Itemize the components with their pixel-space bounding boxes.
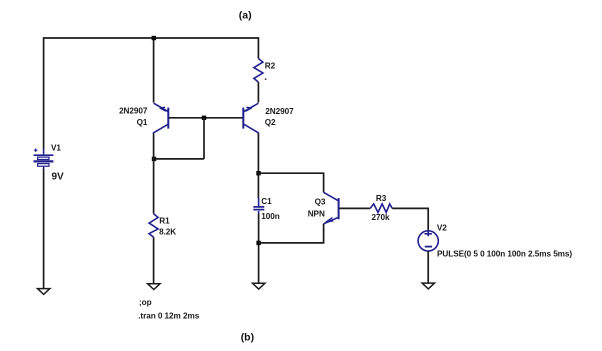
svg-text:2N2907: 2N2907: [119, 107, 148, 116]
wire V2 to ground: [427, 251, 429, 283]
wire Q1 emitter drop: [153, 38, 155, 103]
svg-text:Q3: Q3: [315, 197, 326, 206]
svg-text:R1: R1: [159, 217, 170, 226]
ground V2: [422, 283, 434, 289]
svg-text:100n: 100n: [261, 212, 279, 221]
wire Q1 base to Q2 base: [169, 117, 243, 119]
resistor R2: [254, 59, 263, 83]
source V2: [418, 231, 438, 251]
svg-text:Q2: Q2: [265, 118, 276, 127]
svg-text:9V: 9V: [52, 172, 65, 183]
svg-text:270k: 270k: [372, 213, 390, 222]
svg-text:R3: R3: [376, 194, 387, 203]
junction dot top rail: [152, 36, 156, 40]
wire C1 bottom to ground: [258, 214, 260, 283]
svg-text:8.2K: 8.2K: [159, 227, 176, 236]
svg-text:R2: R2: [265, 62, 276, 71]
wire Q2 collector down: [257, 134, 259, 199]
ground C1: [253, 283, 265, 289]
wire node to Q3 collector: [259, 173, 324, 192]
ground V1: [38, 289, 50, 295]
wire V1 bottom lead: [43, 169, 45, 288]
wire R1 to ground: [153, 237, 155, 284]
transistor Q1 (PNP 2N2907): [154, 103, 169, 134]
wire top rail: [44, 37, 259, 39]
svg-text:V2: V2: [437, 224, 447, 233]
resistor R1: [149, 214, 158, 238]
junction dot node out: [256, 171, 260, 175]
wire Q3 base to R3: [339, 207, 370, 209]
svg-text:(b): (b): [241, 332, 254, 344]
svg-text:V1: V1: [51, 144, 61, 153]
svg-text:2N2907: 2N2907: [265, 107, 294, 116]
svg-text:PULSE(0 5 0 100n 100n 2.5ms 5m: PULSE(0 5 0 100n 100n 2.5ms 5ms): [437, 249, 572, 258]
junction dot collector Q1: [152, 157, 156, 161]
ground R1: [148, 284, 160, 290]
transistor Q2 (PNP 2N2907): [243, 103, 258, 134]
wire feedback to collector: [154, 158, 204, 160]
value dot of R2: [265, 78, 267, 80]
svg-text:(a): (a): [239, 10, 252, 22]
wire Q3 emitter down-left: [259, 224, 324, 243]
wire base net down: [203, 118, 205, 159]
svg-text:;op: ;op: [139, 298, 152, 307]
wire V1 top lead: [43, 37, 45, 149]
svg-text:C1: C1: [261, 197, 272, 206]
battery V1: [34, 148, 54, 169]
wire Q1 collector to R1: [153, 134, 155, 214]
junction dot base net: [202, 116, 206, 120]
wire R3 to V2: [392, 208, 428, 231]
wire R2 to Q2 emitter: [257, 82, 259, 103]
svg-text:Q1: Q1: [137, 118, 148, 127]
resistor R3: [370, 204, 392, 213]
transistor Q3 (NPN): [324, 192, 339, 224]
capacitor C1: [253, 198, 264, 214]
wire R2 top lead: [257, 37, 259, 58]
junction dot emitter net: [256, 241, 260, 245]
svg-text:NPN: NPN: [308, 209, 325, 218]
svg-text:.tran 0 12m 2ms: .tran 0 12m 2ms: [138, 312, 200, 321]
